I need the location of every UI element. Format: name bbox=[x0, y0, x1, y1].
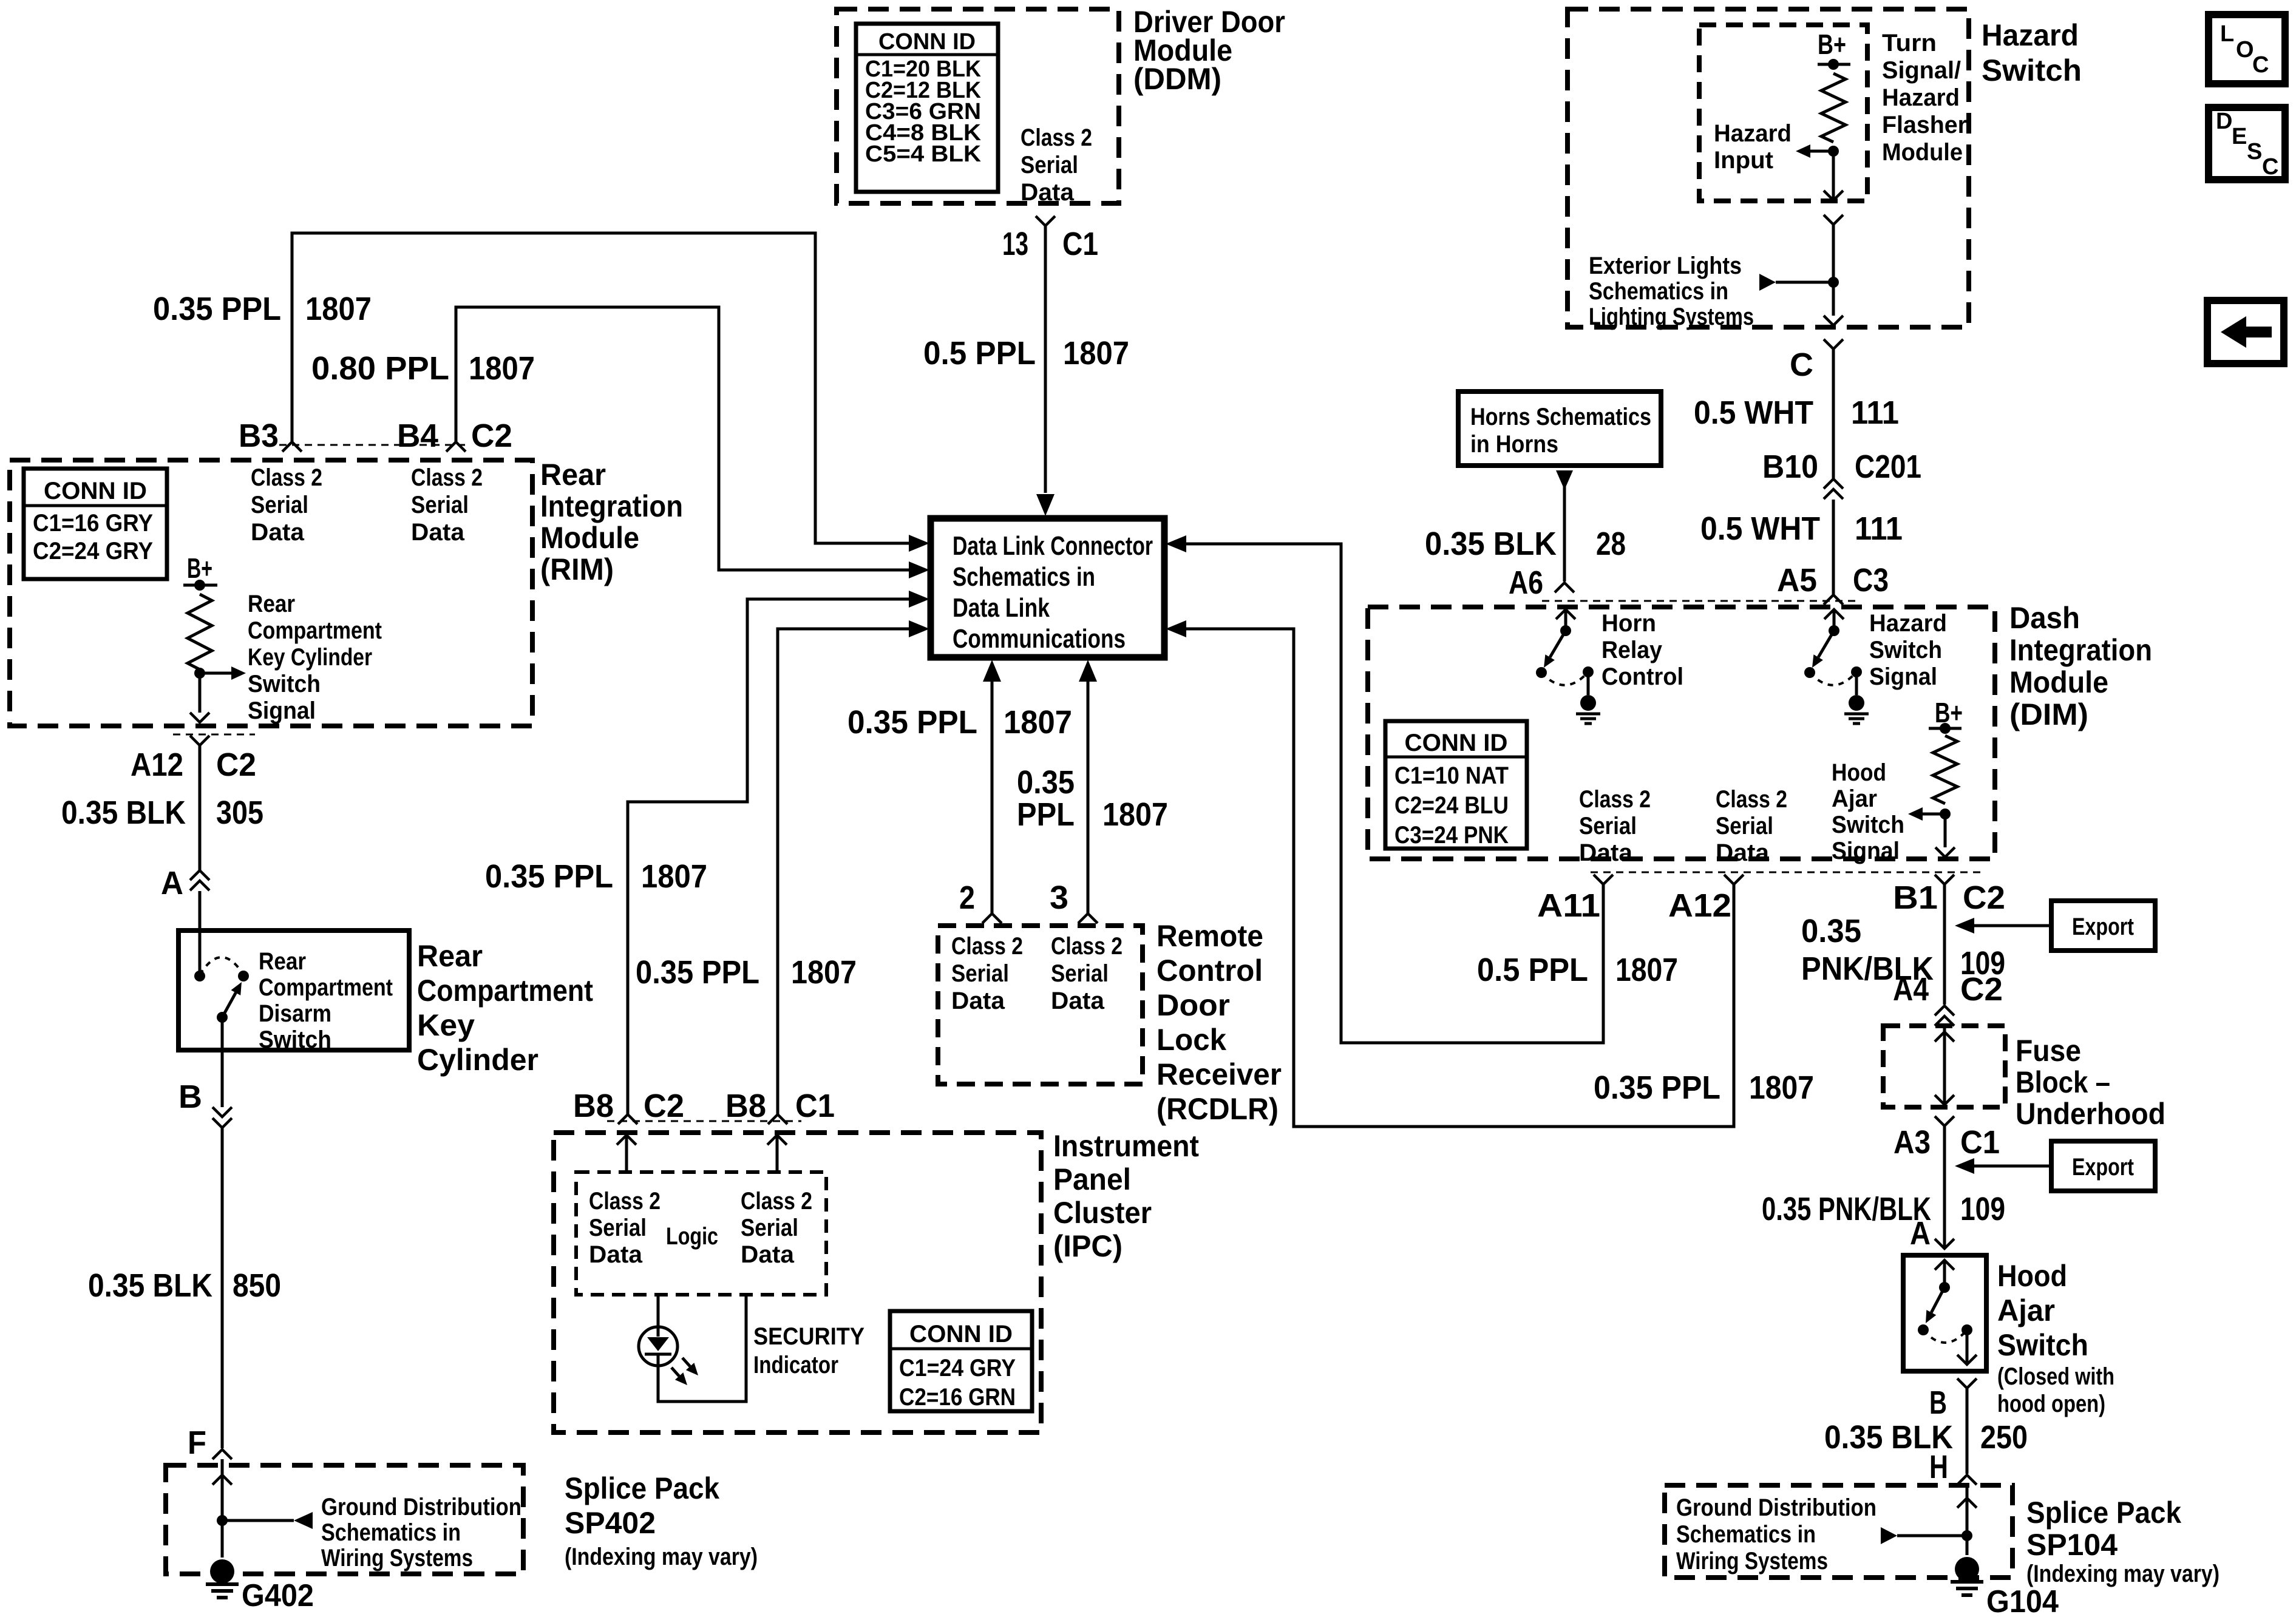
svg-text:Class 2: Class 2 bbox=[1716, 786, 1787, 813]
svg-text:13: 13 bbox=[1002, 226, 1028, 262]
svg-text:Export: Export bbox=[2072, 914, 2134, 940]
svg-text:SP104: SP104 bbox=[2026, 1528, 2118, 1562]
svg-text:Schematics in: Schematics in bbox=[1676, 1521, 1816, 1548]
svg-text:0.35 PNK/BLK: 0.35 PNK/BLK bbox=[1762, 1191, 1931, 1227]
svg-text:Hazard: Hazard bbox=[1714, 120, 1792, 147]
svg-text:G402: G402 bbox=[242, 1578, 314, 1613]
svg-text:Rear: Rear bbox=[540, 458, 606, 492]
svg-text:Hood: Hood bbox=[1832, 759, 1886, 786]
svg-text:1807: 1807 bbox=[791, 954, 857, 991]
svg-text:C201: C201 bbox=[1855, 449, 1921, 485]
svg-text:0.80 PPL: 0.80 PPL bbox=[311, 350, 449, 387]
svg-text:Rear: Rear bbox=[417, 939, 483, 973]
svg-text:Class 2: Class 2 bbox=[741, 1188, 812, 1215]
svg-text:Key: Key bbox=[417, 1008, 475, 1042]
svg-text:in Horns: in Horns bbox=[1470, 431, 1558, 458]
svg-text:C1: C1 bbox=[1960, 1124, 2000, 1161]
svg-text:Data: Data bbox=[1716, 839, 1770, 866]
svg-text:0.5 PPL: 0.5 PPL bbox=[1477, 952, 1588, 988]
svg-text:0.35 BLK: 0.35 BLK bbox=[1425, 526, 1557, 562]
svg-text:Compartment: Compartment bbox=[417, 974, 593, 1008]
svg-text:Class 2: Class 2 bbox=[411, 464, 483, 491]
svg-text:B8: B8 bbox=[573, 1088, 614, 1124]
svg-text:C2=24 GRY: C2=24 GRY bbox=[33, 538, 153, 564]
svg-text:C2: C2 bbox=[644, 1088, 684, 1124]
svg-text:C2=24 BLU: C2=24 BLU bbox=[1394, 792, 1509, 819]
svg-text:Serial: Serial bbox=[1051, 960, 1109, 987]
svg-text:Signal/: Signal/ bbox=[1882, 57, 1961, 84]
svg-text:1807: 1807 bbox=[305, 291, 372, 327]
svg-text:Serial: Serial bbox=[951, 960, 1009, 987]
svg-text:Class 2: Class 2 bbox=[1051, 933, 1123, 960]
svg-text:Class 2: Class 2 bbox=[1579, 786, 1651, 813]
svg-text:A3: A3 bbox=[1894, 1124, 1931, 1161]
svg-text:SECURITY: SECURITY bbox=[753, 1323, 864, 1350]
svg-text:Signal: Signal bbox=[1832, 838, 1900, 864]
svg-text:0.5 WHT: 0.5 WHT bbox=[1700, 510, 1820, 547]
svg-text:Ajar: Ajar bbox=[1832, 785, 1877, 812]
svg-text:Module: Module bbox=[1882, 139, 1963, 166]
svg-text:L: L bbox=[2220, 21, 2234, 47]
svg-text:Input: Input bbox=[1714, 147, 1773, 174]
svg-text:0.35: 0.35 bbox=[1801, 913, 1861, 949]
svg-text:Dash: Dash bbox=[2009, 601, 2080, 635]
svg-text:1807: 1807 bbox=[1615, 952, 1678, 988]
svg-text:0.35 PPL: 0.35 PPL bbox=[636, 954, 759, 991]
svg-text:B10: B10 bbox=[1762, 449, 1818, 485]
svg-text:Ajar: Ajar bbox=[1997, 1293, 2055, 1327]
svg-text:C3=24 PNK: C3=24 PNK bbox=[1394, 822, 1509, 849]
svg-text:C1=24 GRY: C1=24 GRY bbox=[899, 1355, 1016, 1381]
svg-text:A5: A5 bbox=[1777, 562, 1817, 598]
svg-text:3: 3 bbox=[1050, 880, 1068, 916]
svg-text:Class 2: Class 2 bbox=[589, 1188, 661, 1215]
svg-text:305: 305 bbox=[216, 795, 263, 831]
svg-text:A12: A12 bbox=[1668, 887, 1731, 924]
svg-text:C2: C2 bbox=[1960, 971, 2003, 1008]
svg-text:Schematics in: Schematics in bbox=[321, 1519, 461, 1546]
svg-text:C5=4 BLK: C5=4 BLK bbox=[865, 141, 982, 167]
svg-text:2: 2 bbox=[959, 880, 975, 916]
svg-text:(Indexing may vary): (Indexing may vary) bbox=[565, 1544, 758, 1570]
svg-text:1807: 1807 bbox=[641, 858, 707, 895]
svg-text:Hazard: Hazard bbox=[1869, 610, 1947, 637]
svg-text:B+: B+ bbox=[1935, 697, 1963, 728]
svg-text:Key Cylinder: Key Cylinder bbox=[248, 644, 372, 671]
svg-text:Receiver: Receiver bbox=[1156, 1057, 1282, 1091]
svg-text:1807: 1807 bbox=[1004, 704, 1072, 741]
svg-text:C: C bbox=[2262, 154, 2278, 180]
svg-text:850: 850 bbox=[233, 1267, 281, 1304]
svg-text:Logic: Logic bbox=[666, 1223, 718, 1250]
svg-text:C2=16 GRN: C2=16 GRN bbox=[899, 1384, 1016, 1411]
svg-text:Flasher: Flasher bbox=[1882, 112, 1967, 138]
svg-text:Block –: Block – bbox=[2016, 1065, 2110, 1099]
svg-text:Switch: Switch bbox=[1982, 53, 2082, 87]
svg-text:C2: C2 bbox=[471, 418, 512, 454]
svg-text:(Indexing may vary): (Indexing may vary) bbox=[2026, 1561, 2220, 1587]
svg-text:Hood: Hood bbox=[1997, 1259, 2067, 1293]
svg-text:Cluster: Cluster bbox=[1053, 1196, 1152, 1230]
svg-text:Serial: Serial bbox=[1021, 152, 1078, 178]
svg-text:0.35 PPL: 0.35 PPL bbox=[1594, 1070, 1720, 1106]
svg-text:Export: Export bbox=[2072, 1154, 2134, 1181]
svg-text:Module: Module bbox=[540, 521, 639, 555]
svg-text:1807: 1807 bbox=[1102, 796, 1168, 833]
svg-text:H: H bbox=[1929, 1449, 1948, 1485]
svg-text:Rear: Rear bbox=[259, 948, 306, 975]
svg-text:B4: B4 bbox=[397, 418, 438, 454]
svg-text:Schematics in: Schematics in bbox=[1589, 278, 1728, 305]
svg-text:C: C bbox=[2252, 52, 2269, 78]
svg-text:A12: A12 bbox=[131, 747, 183, 783]
svg-text:Signal: Signal bbox=[1869, 663, 1937, 690]
svg-text:C2: C2 bbox=[216, 747, 256, 783]
svg-text:A: A bbox=[1910, 1215, 1931, 1252]
svg-text:Switch: Switch bbox=[1997, 1328, 2088, 1362]
svg-text:Switch: Switch bbox=[248, 671, 321, 697]
svg-text:S: S bbox=[2247, 139, 2262, 164]
svg-text:0.35 BLK: 0.35 BLK bbox=[61, 795, 186, 831]
svg-text:Instrument: Instrument bbox=[1053, 1129, 1199, 1163]
svg-text:O: O bbox=[2236, 37, 2254, 63]
svg-text:(IPC): (IPC) bbox=[1053, 1229, 1123, 1263]
svg-text:Lock: Lock bbox=[1156, 1023, 1226, 1057]
svg-text:B+: B+ bbox=[1818, 29, 1846, 60]
svg-text:(RIM): (RIM) bbox=[540, 552, 614, 586]
svg-text:Turn: Turn bbox=[1882, 30, 1937, 56]
svg-text:Module: Module bbox=[2009, 665, 2108, 699]
svg-text:Schematics in: Schematics in bbox=[953, 562, 1095, 592]
svg-text:Data: Data bbox=[951, 988, 1005, 1014]
svg-text:B8: B8 bbox=[725, 1088, 766, 1124]
svg-text:E: E bbox=[2232, 124, 2247, 149]
svg-text:C1=16 GRY: C1=16 GRY bbox=[33, 510, 153, 537]
svg-text:CONN ID: CONN ID bbox=[44, 478, 147, 504]
svg-text:Data: Data bbox=[411, 519, 465, 546]
svg-text:D: D bbox=[2216, 109, 2232, 134]
svg-text:PPL: PPL bbox=[1017, 796, 1075, 833]
svg-text:Signal: Signal bbox=[248, 697, 316, 724]
svg-text:A: A bbox=[161, 865, 183, 901]
svg-text:Class 2: Class 2 bbox=[1021, 124, 1092, 151]
svg-text:111: 111 bbox=[1855, 510, 1903, 547]
svg-text:Switch: Switch bbox=[1832, 812, 1904, 838]
svg-text:0.35 PPL: 0.35 PPL bbox=[485, 858, 613, 895]
svg-text:Relay: Relay bbox=[1601, 637, 1663, 663]
svg-text:Remote: Remote bbox=[1156, 919, 1263, 953]
svg-text:Splice Pack: Splice Pack bbox=[565, 1471, 719, 1505]
svg-text:Ground Distribution: Ground Distribution bbox=[321, 1494, 521, 1520]
svg-text:109: 109 bbox=[1960, 1191, 2005, 1227]
svg-text:Data: Data bbox=[589, 1241, 643, 1268]
svg-text:0.5 PPL: 0.5 PPL bbox=[923, 335, 1036, 371]
svg-text:Panel: Panel bbox=[1053, 1162, 1131, 1196]
svg-text:B+: B+ bbox=[187, 552, 212, 584]
svg-text:Control: Control bbox=[1156, 954, 1263, 988]
svg-text:C3: C3 bbox=[1853, 562, 1889, 598]
svg-text:A4: A4 bbox=[1893, 971, 1929, 1008]
svg-text:Wiring Systems: Wiring Systems bbox=[321, 1545, 473, 1571]
svg-text:Data: Data bbox=[1021, 179, 1075, 206]
svg-text:Compartment: Compartment bbox=[248, 617, 382, 644]
svg-text:Exterior Lights: Exterior Lights bbox=[1589, 253, 1742, 279]
svg-text:Data: Data bbox=[251, 519, 305, 546]
svg-text:Serial: Serial bbox=[251, 492, 308, 518]
svg-text:250: 250 bbox=[1980, 1419, 2028, 1456]
svg-text:Serial: Serial bbox=[741, 1215, 798, 1241]
svg-text:C1: C1 bbox=[1062, 226, 1098, 262]
svg-text:B1: B1 bbox=[1893, 880, 1938, 916]
svg-text:Disarm: Disarm bbox=[259, 1000, 331, 1027]
svg-text:Data Link: Data Link bbox=[953, 593, 1050, 623]
svg-text:C1: C1 bbox=[795, 1088, 835, 1124]
svg-text:Class 2: Class 2 bbox=[251, 464, 322, 491]
svg-text:0.35 BLK: 0.35 BLK bbox=[88, 1267, 212, 1304]
svg-text:Cylinder: Cylinder bbox=[417, 1043, 538, 1077]
svg-text:C2: C2 bbox=[1963, 880, 2005, 916]
svg-text:Data Link Connector: Data Link Connector bbox=[953, 531, 1153, 561]
svg-text:A11: A11 bbox=[1537, 887, 1600, 924]
svg-text:(RCDLR): (RCDLR) bbox=[1156, 1092, 1279, 1126]
svg-text:C: C bbox=[1790, 347, 1813, 383]
svg-text:0.5 WHT: 0.5 WHT bbox=[1694, 395, 1813, 431]
svg-text:Serial: Serial bbox=[411, 492, 469, 518]
svg-text:0.35 PPL: 0.35 PPL bbox=[153, 291, 281, 327]
svg-text:SP402: SP402 bbox=[565, 1506, 656, 1540]
svg-text:Fuse: Fuse bbox=[2016, 1034, 2081, 1068]
svg-text:C1=10 NAT: C1=10 NAT bbox=[1394, 762, 1509, 789]
svg-text:Horn: Horn bbox=[1601, 610, 1656, 637]
svg-text:G104: G104 bbox=[1986, 1584, 2059, 1617]
svg-text:(DIM): (DIM) bbox=[2009, 697, 2088, 731]
svg-text:0.35: 0.35 bbox=[1017, 764, 1075, 801]
svg-text:Lighting Systems: Lighting Systems bbox=[1589, 303, 1754, 330]
svg-text:1807: 1807 bbox=[1749, 1070, 1814, 1106]
svg-text:hood open): hood open) bbox=[1997, 1391, 2105, 1417]
svg-text:Data: Data bbox=[741, 1241, 795, 1268]
svg-text:F: F bbox=[188, 1425, 206, 1461]
svg-text:A6: A6 bbox=[1509, 564, 1543, 601]
svg-text:Data: Data bbox=[1579, 839, 1633, 866]
svg-text:Hazard: Hazard bbox=[1982, 18, 2079, 52]
svg-text:Rear: Rear bbox=[248, 591, 295, 617]
svg-text:Integration: Integration bbox=[540, 489, 683, 523]
svg-text:Serial: Serial bbox=[1579, 813, 1637, 839]
svg-text:CONN ID: CONN ID bbox=[1405, 730, 1508, 756]
svg-text:111: 111 bbox=[1851, 395, 1899, 431]
svg-text:CONN ID: CONN ID bbox=[878, 29, 976, 55]
svg-text:(DDM): (DDM) bbox=[1133, 62, 1221, 96]
svg-text:Door: Door bbox=[1156, 988, 1230, 1022]
svg-text:Wiring Systems: Wiring Systems bbox=[1676, 1548, 1828, 1575]
svg-text:Ground Distribution: Ground Distribution bbox=[1676, 1494, 1877, 1521]
svg-text:0.35 PPL: 0.35 PPL bbox=[847, 704, 977, 741]
svg-text:B: B bbox=[178, 1079, 202, 1115]
svg-text:Class 2: Class 2 bbox=[951, 933, 1023, 960]
svg-text:Integration: Integration bbox=[2009, 633, 2152, 667]
svg-text:B3: B3 bbox=[239, 418, 279, 454]
svg-text:Data: Data bbox=[1051, 988, 1105, 1014]
svg-text:(Closed with: (Closed with bbox=[1997, 1363, 2114, 1390]
svg-text:1807: 1807 bbox=[469, 350, 535, 387]
svg-text:Serial: Serial bbox=[1716, 813, 1773, 839]
svg-text:Switch: Switch bbox=[1869, 637, 1942, 663]
svg-text:Indicator: Indicator bbox=[753, 1352, 838, 1378]
svg-text:Hazard: Hazard bbox=[1882, 84, 1960, 111]
svg-text:Splice Pack: Splice Pack bbox=[2026, 1496, 2181, 1530]
svg-text:Horns Schematics: Horns Schematics bbox=[1470, 404, 1651, 430]
svg-text:Serial: Serial bbox=[589, 1215, 647, 1241]
svg-text:B: B bbox=[1929, 1385, 1947, 1421]
svg-text:1807: 1807 bbox=[1063, 335, 1129, 371]
svg-text:Underhood: Underhood bbox=[2016, 1097, 2165, 1131]
svg-text:Compartment: Compartment bbox=[259, 974, 393, 1001]
svg-text:Communications: Communications bbox=[953, 624, 1126, 654]
svg-text:Control: Control bbox=[1601, 663, 1683, 690]
svg-text:28: 28 bbox=[1596, 526, 1626, 562]
svg-text:CONN ID: CONN ID bbox=[909, 1321, 1013, 1347]
svg-text:Switch: Switch bbox=[259, 1026, 331, 1053]
